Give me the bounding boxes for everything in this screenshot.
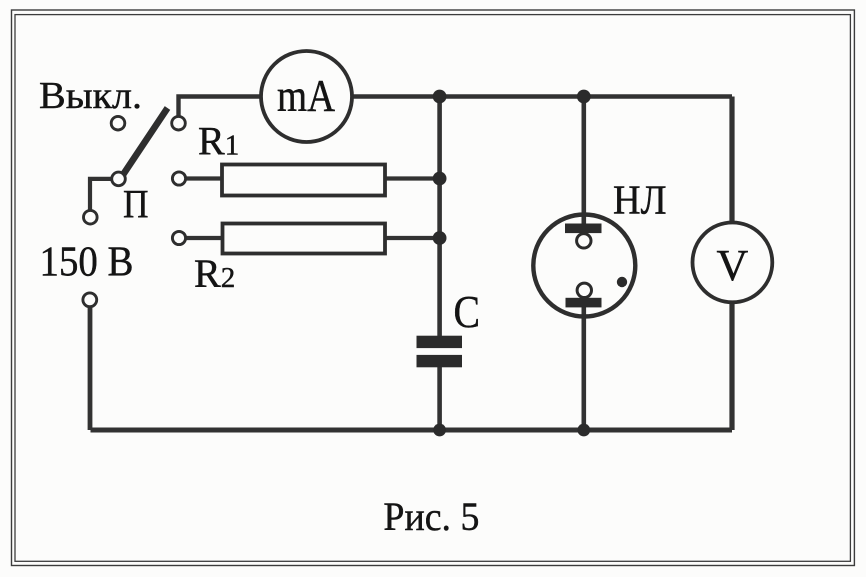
node junction bottom capacitor branch xyxy=(433,424,446,437)
wire top bus from switch to right corner xyxy=(179,97,733,121)
resistor R1 terminal xyxy=(172,172,185,185)
wire lamp branch upper xyxy=(581,97,586,231)
svg-text:Рис. 5: Рис. 5 xyxy=(383,494,479,539)
resistor R2 xyxy=(223,224,386,254)
neon lamp bottom electrode bar xyxy=(566,298,602,308)
neon lamp top electrode bar xyxy=(565,224,602,234)
resistor R1 xyxy=(222,165,385,196)
svg-text:C: C xyxy=(454,287,481,337)
svg-text:V: V xyxy=(717,241,749,290)
wire lamp branch lower xyxy=(581,301,586,430)
source lower terminal xyxy=(83,293,97,307)
node junction R2 output xyxy=(433,231,447,245)
switch right contact xyxy=(172,116,186,130)
wire capacitor branch lower xyxy=(437,365,442,430)
wire capacitor branch upper xyxy=(437,97,442,339)
neon lamp bottom electrode ring xyxy=(577,283,591,297)
node junction bottom lamp branch xyxy=(577,424,590,437)
wire R1 leads xyxy=(180,176,440,180)
switch SA lever xyxy=(123,108,168,176)
node junction top capacitor branch xyxy=(433,90,447,104)
svg-text:П: П xyxy=(123,182,149,227)
wire right branch down to voltmeter and bottom bus xyxy=(729,97,734,431)
svg-text:mA: mA xyxy=(277,71,335,121)
svg-text:Выкл.: Выкл. xyxy=(39,75,142,117)
wire from switch pivot to source upper terminal xyxy=(90,179,113,214)
neon lamp NL envelope xyxy=(533,215,635,317)
neon lamp gas dot xyxy=(617,277,627,287)
switch pivot contact xyxy=(112,172,126,186)
svg-text:НЛ: НЛ xyxy=(613,177,667,223)
capacitor C bottom plate xyxy=(417,355,463,367)
wire left branch from source lower terminal to bottom bus xyxy=(88,305,93,430)
switch left open contact xyxy=(111,116,125,130)
wire bottom bus xyxy=(91,428,733,433)
milliammeter mA xyxy=(261,51,352,142)
voltmeter V xyxy=(693,223,773,303)
node junction top lamp branch xyxy=(577,90,591,104)
wire R2 leads xyxy=(180,236,440,240)
neon lamp top electrode ring xyxy=(577,234,591,248)
resistor R2 terminal xyxy=(172,231,185,244)
node junction R1 output xyxy=(433,172,447,186)
source upper terminal xyxy=(84,210,98,224)
capacitor C top plate xyxy=(417,336,463,348)
svg-text:150 В: 150 В xyxy=(40,240,134,286)
